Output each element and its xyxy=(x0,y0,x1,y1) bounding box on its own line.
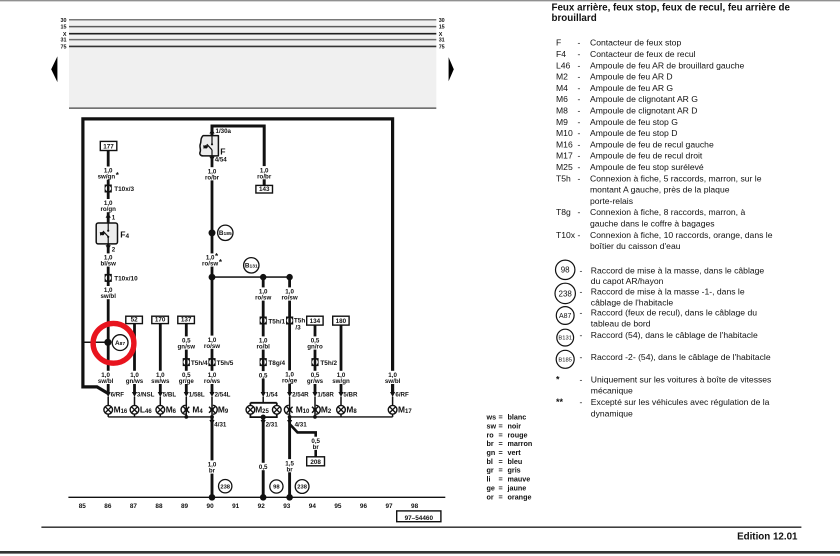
svg-text:br: br xyxy=(209,468,216,475)
label gn/sw xyxy=(176,336,196,349)
pin arrows into lamps xyxy=(106,392,111,397)
svg-text:orange: orange xyxy=(508,492,532,501)
svg-text:T5h/4: T5h/4 xyxy=(191,360,208,367)
svg-text:vert: vert xyxy=(508,448,522,457)
svg-text:M17: M17 xyxy=(556,151,573,161)
svg-text:T5h/2: T5h/2 xyxy=(320,360,337,367)
svg-text:sw/bl: sw/bl xyxy=(100,293,116,300)
svg-text:porte-relais: porte-relais xyxy=(590,196,633,206)
svg-text:M25: M25 xyxy=(556,162,573,172)
wire: A87 junction link to frame xyxy=(83,341,108,343)
wire: lamp rail right (M10..M17) xyxy=(290,416,393,418)
svg-text:Raccord (54), dans le câblage: Raccord (54), dans le câblage de l'habit… xyxy=(591,330,758,340)
svg-text:/3: /3 xyxy=(295,325,301,332)
svg-text:ws: ws xyxy=(486,413,497,422)
svg-text:Raccord de mise à la masse, da: Raccord de mise à la masse, dans le câbl… xyxy=(591,265,765,275)
svg-text:86: 86 xyxy=(104,503,112,510)
wire: M16 lamp stub xyxy=(107,397,109,406)
wire: box52 to L46 xyxy=(133,324,136,393)
label sw/bl right xyxy=(383,371,403,384)
svg-text:137: 137 xyxy=(181,317,192,324)
svg-text:bl/sw: bl/sw xyxy=(100,261,116,268)
svg-text:gn/sw: gn/sw xyxy=(178,344,196,351)
wire: M17 lamp stub xyxy=(392,397,394,406)
svg-text:Connexion à fiche, 5 raccords,: Connexion à fiche, 5 raccords, marron, s… xyxy=(590,173,762,183)
svg-text:-: - xyxy=(578,49,581,59)
pin arrows below rails (4/31,2/31,4/31) xyxy=(209,420,214,425)
svg-text:-: - xyxy=(580,308,583,318)
svg-text:1: 1 xyxy=(112,215,116,222)
lamp L46 xyxy=(130,405,139,414)
wire: plus bus frame (top / left to M16 / right to M17) xyxy=(83,119,393,394)
svg-text:B185: B185 xyxy=(219,230,232,237)
connector T5h/2 xyxy=(311,358,318,366)
svg-text:br: br xyxy=(313,444,320,451)
svg-text:4/31: 4/31 xyxy=(295,422,308,429)
svg-text:Ampoule de clignotant AR G: Ampoule de clignotant AR G xyxy=(590,94,698,104)
nav triangle right xyxy=(449,57,454,81)
svg-text:30: 30 xyxy=(439,18,445,24)
wire: M10 ground run xyxy=(288,417,291,497)
svg-text:-: - xyxy=(578,38,581,48)
svg-text:Ampoule de feu de recul gauche: Ampoule de feu de recul gauche xyxy=(590,139,714,149)
svg-text:=: = xyxy=(499,421,503,430)
svg-text:4/54: 4/54 xyxy=(215,157,228,164)
svg-text:=: = xyxy=(499,413,503,422)
bus line X xyxy=(69,33,436,35)
svg-text:T10x/3: T10x/3 xyxy=(114,186,134,193)
svg-text:sw: sw xyxy=(487,421,497,430)
label ro/sw mid xyxy=(202,336,222,349)
bus line 31 xyxy=(69,39,436,41)
wire: lamp rail left (M16..M9) xyxy=(108,416,212,418)
label sw/bl upper xyxy=(98,286,118,299)
page top edge line xyxy=(0,0,840,2)
svg-text:T5h/5: T5h/5 xyxy=(217,360,234,367)
svg-text:br: br xyxy=(287,466,294,473)
svg-text:**: ** xyxy=(556,397,564,407)
svg-text:ro/ws: ro/ws xyxy=(204,378,221,385)
svg-text:97: 97 xyxy=(385,503,393,510)
page bottom rule xyxy=(0,551,840,554)
svg-text:=: = xyxy=(499,483,503,492)
svg-text:M8: M8 xyxy=(556,106,568,116)
svg-text:Ampoule de feu AR G: Ampoule de feu AR G xyxy=(590,83,673,93)
svg-text:96: 96 xyxy=(360,503,368,510)
svg-text:bl: bl xyxy=(487,457,493,466)
svg-text:-: - xyxy=(580,287,583,297)
svg-text:1/58L: 1/58L xyxy=(189,391,205,398)
svg-text:dynamique: dynamique xyxy=(591,408,633,418)
label ro/sw branch1 xyxy=(253,287,273,300)
svg-text:-: - xyxy=(578,72,581,82)
svg-text:sw/bl: sw/bl xyxy=(98,378,114,385)
svg-text:-: - xyxy=(580,265,583,275)
bus line 75 xyxy=(69,45,436,47)
svg-text:15: 15 xyxy=(61,25,67,31)
svg-text:93: 93 xyxy=(283,503,291,510)
svg-text:ro/sw: ro/sw xyxy=(282,295,298,302)
svg-text:Uniquement sur les voitures à: Uniquement sur les voitures à boîte de v… xyxy=(591,374,772,384)
svg-text:=: = xyxy=(499,492,503,501)
svg-text:ro/bl: ro/bl xyxy=(256,344,270,351)
svg-text:-: - xyxy=(580,397,583,407)
svg-text:sw/gn: sw/gn xyxy=(332,378,350,385)
svg-text:ro/gn: ro/gn xyxy=(100,206,116,213)
svg-text:blanc: blanc xyxy=(508,413,527,422)
box 177 xyxy=(100,141,117,150)
svg-text:4: 4 xyxy=(126,233,130,240)
svg-text:75: 75 xyxy=(439,45,445,51)
svg-text:6/RF: 6/RF xyxy=(111,391,125,398)
svg-text:134: 134 xyxy=(310,318,321,325)
svg-text:gauche dans le coffre à bagage: gauche dans le coffre à bagages xyxy=(590,219,715,229)
svg-text:ge: ge xyxy=(487,483,495,492)
svg-text:A87: A87 xyxy=(115,340,125,347)
ground 238 right xyxy=(295,480,309,494)
label sw/gn right xyxy=(331,371,351,384)
svg-text:T5h: T5h xyxy=(294,318,305,325)
svg-text:Raccord de mise à la masse -1-: Raccord de mise à la masse -1-, dans le xyxy=(591,287,745,297)
svg-text:Connexion à fiche, 8 raccords,: Connexion à fiche, 8 raccords, marron, à xyxy=(590,207,745,217)
svg-text:Ampoule de feu stop G: Ampoule de feu stop G xyxy=(590,117,678,127)
svg-text:31: 31 xyxy=(61,38,67,44)
box 208 xyxy=(307,457,325,466)
svg-text:94: 94 xyxy=(309,503,317,510)
svg-text:30: 30 xyxy=(61,18,67,24)
svg-text:2/54L: 2/54L xyxy=(215,391,231,398)
raccord B185 xyxy=(218,225,233,240)
lamp bottom stubs xyxy=(107,414,109,417)
wire: branch from M10 to 208 xyxy=(290,424,316,457)
legend ground items xyxy=(556,260,575,279)
wire: M9 ground run xyxy=(211,417,214,497)
svg-text:A87: A87 xyxy=(559,313,572,320)
svg-text:143: 143 xyxy=(259,186,270,193)
svg-text:97–54460: 97–54460 xyxy=(405,515,434,522)
label ro/br right xyxy=(254,166,274,179)
svg-text:208: 208 xyxy=(310,459,321,466)
pin arrow 1/30a xyxy=(209,129,214,134)
svg-text:15: 15 xyxy=(439,25,445,31)
pin arrow 4/54 xyxy=(209,157,214,162)
svg-text:=: = xyxy=(499,475,503,484)
wire: M9 lamp pass-through (thin) xyxy=(211,397,213,417)
ground 238 left xyxy=(219,480,232,493)
label ro/bl xyxy=(253,336,273,349)
svg-text:87: 87 xyxy=(130,503,138,510)
lamp M9 (half) xyxy=(209,405,217,414)
ground line dots xyxy=(209,494,216,501)
svg-text:F: F xyxy=(556,38,561,48)
junction A87 xyxy=(104,339,111,346)
svg-text:T5h: T5h xyxy=(556,173,571,183)
svg-text:Contacteur de feux de recul: Contacteur de feux de recul xyxy=(590,49,696,59)
svg-text:180: 180 xyxy=(336,318,347,325)
label 0,5 ground xyxy=(257,463,270,470)
svg-text:238: 238 xyxy=(220,484,230,490)
box 170 xyxy=(152,316,169,324)
svg-text:ro/sw: ro/sw xyxy=(204,343,220,350)
svg-text:89: 89 xyxy=(181,503,189,510)
svg-text:98: 98 xyxy=(561,266,570,275)
svg-text:-: - xyxy=(578,117,581,127)
svg-text:-: - xyxy=(580,330,583,340)
lamp M4 (half) xyxy=(181,405,189,414)
svg-text:B131: B131 xyxy=(558,336,572,342)
wire: main F to M9 (x=212) xyxy=(211,156,214,393)
svg-text:6/RF: 6/RF xyxy=(395,391,409,398)
svg-text:98: 98 xyxy=(411,503,419,510)
svg-text:90: 90 xyxy=(207,503,215,510)
svg-text:ro/br: ro/br xyxy=(205,174,220,181)
label 0,5 br 208 xyxy=(309,437,322,450)
contactor F (feux stop) xyxy=(200,136,219,156)
wire: box170 to M6 xyxy=(159,324,162,393)
svg-text:75: 75 xyxy=(61,45,67,51)
terminal band background xyxy=(69,19,436,108)
svg-text:1/54: 1/54 xyxy=(266,391,279,398)
wire: M25 loop xyxy=(250,403,276,417)
svg-text:Ampoule de clignotant AR D: Ampoule de clignotant AR D xyxy=(590,106,698,116)
svg-text:F: F xyxy=(220,146,225,156)
svg-text:170: 170 xyxy=(155,317,166,324)
lamp M2 (half) xyxy=(312,405,320,414)
label ro/sw branch2 xyxy=(280,287,300,300)
svg-text:=: = xyxy=(499,439,503,448)
svg-text:marron: marron xyxy=(508,439,533,448)
label sw/bl lower xyxy=(96,371,116,384)
svg-text:Excepté sur les véhicules avec: Excepté sur les véhicules avec régulatio… xyxy=(591,397,770,407)
label sw/ws xyxy=(150,371,170,384)
svg-text:85: 85 xyxy=(79,503,87,510)
lamp M6 xyxy=(156,405,165,414)
nav triangle left xyxy=(51,56,57,82)
footer rule xyxy=(41,526,801,528)
wire: F4 to M16 junction run xyxy=(107,244,110,393)
raccord B131 xyxy=(244,258,259,273)
svg-text:M6: M6 xyxy=(556,94,568,104)
svg-text:brouillard: brouillard xyxy=(552,13,597,24)
svg-text:Ampoule de feu AR de brouillar: Ampoule de feu AR de brouillard gauche xyxy=(590,60,745,70)
svg-text:=: = xyxy=(499,448,503,457)
svg-text:ro/ge: ro/ge xyxy=(282,378,298,385)
lamp M25 twin xyxy=(246,405,255,414)
label gn/ro xyxy=(305,336,325,349)
svg-text:tableau de bord: tableau de bord xyxy=(591,318,651,328)
svg-text:-: - xyxy=(578,60,581,70)
svg-text:sw/ws: sw/ws xyxy=(151,378,170,385)
lamp M16 xyxy=(104,405,113,414)
connector T10x/3 xyxy=(105,185,112,193)
svg-text:br: br xyxy=(487,439,494,448)
contactor F4 (feux de recul) xyxy=(96,223,117,244)
svg-text:-: - xyxy=(578,128,581,138)
svg-text:gr/ws: gr/ws xyxy=(307,378,324,385)
svg-text:177: 177 xyxy=(103,144,114,151)
box 180 xyxy=(333,316,349,325)
svg-text:-: - xyxy=(578,94,581,104)
box 52 xyxy=(126,316,143,324)
rail junction dots xyxy=(184,415,188,419)
lamp M8 xyxy=(337,405,346,414)
label br ground M9 xyxy=(206,460,219,473)
svg-text:or: or xyxy=(487,492,494,501)
svg-text:238: 238 xyxy=(559,289,573,298)
svg-text:-: - xyxy=(578,151,581,161)
box 134 xyxy=(307,316,323,325)
svg-text:4/31: 4/31 xyxy=(214,422,227,429)
svg-text:5/BL: 5/BL xyxy=(163,391,177,398)
label ro/ws xyxy=(202,371,222,384)
svg-text:sw/bl: sw/bl xyxy=(385,378,401,385)
label 1,5 br ground xyxy=(283,459,296,472)
svg-text:2/31: 2/31 xyxy=(266,422,279,429)
svg-text:M4: M4 xyxy=(556,83,568,93)
svg-text:ro/br: ro/br xyxy=(257,173,272,180)
svg-text:bleu: bleu xyxy=(508,457,523,466)
svg-text:91: 91 xyxy=(232,503,240,510)
connector T8g/4 xyxy=(260,358,267,366)
pin arrow F4 pin2 xyxy=(106,245,111,250)
svg-text:95: 95 xyxy=(334,503,342,510)
connector T5h/1 xyxy=(260,317,267,325)
box 143 xyxy=(256,185,273,193)
lamp M17 xyxy=(388,405,397,414)
svg-text:gn/ws: gn/ws xyxy=(126,378,144,385)
wire: branch to M10 (x=289.6) xyxy=(288,277,291,392)
svg-text:0,5: 0,5 xyxy=(259,464,268,471)
svg-text:=: = xyxy=(499,466,503,475)
label ro/sw starred xyxy=(202,253,222,266)
wire: M10 lamp pass-through (thin) xyxy=(289,397,291,417)
svg-text:Ampoule de feu stop D: Ampoule de feu stop D xyxy=(590,128,677,138)
svg-text:Raccord -2- (54), dans le câbl: Raccord -2- (54), dans le câblage de l'h… xyxy=(591,352,771,362)
svg-text:jaune: jaune xyxy=(507,483,527,492)
svg-text:ro/sw: ro/sw xyxy=(255,295,271,302)
wire: branch rail below B131 xyxy=(212,276,290,278)
svg-text:Edition 12.01: Edition 12.01 xyxy=(737,532,798,543)
label bl/sw xyxy=(98,253,118,266)
svg-text:Ampoule de feu de recul droit: Ampoule de feu de recul droit xyxy=(590,151,703,161)
svg-text:-: - xyxy=(578,83,581,93)
svg-text:gn: gn xyxy=(487,448,496,457)
svg-text:1/30a: 1/30a xyxy=(216,128,232,135)
svg-text:-: - xyxy=(578,162,581,172)
lamp M10 (half) xyxy=(284,405,292,414)
svg-text:-: - xyxy=(578,106,581,116)
svg-text:3/NSL: 3/NSL xyxy=(137,391,155,398)
svg-text:52: 52 xyxy=(131,317,139,324)
svg-text:T10x/10: T10x/10 xyxy=(114,276,138,283)
svg-text:0,5: 0,5 xyxy=(259,372,268,379)
diagram number box xyxy=(397,511,441,522)
svg-text:M16: M16 xyxy=(556,139,573,149)
svg-text:98: 98 xyxy=(273,485,280,491)
pin arrow F4 pin1 xyxy=(106,213,111,218)
bus line 30 xyxy=(69,19,436,21)
box 137 xyxy=(178,316,195,324)
svg-text:-: - xyxy=(578,207,581,217)
junction at branch rail xyxy=(209,274,216,281)
svg-text:-: - xyxy=(578,230,581,240)
red annotation circle xyxy=(93,323,134,363)
svg-text:M2: M2 xyxy=(556,72,568,82)
svg-text:du capot AR/hayon: du capot AR/hayon xyxy=(591,276,664,286)
svg-text:M9: M9 xyxy=(556,117,568,127)
svg-text:B185: B185 xyxy=(558,357,572,363)
svg-text:li: li xyxy=(487,475,491,484)
label sw/gn xyxy=(98,167,118,180)
label ro/ge xyxy=(280,370,300,383)
svg-text:2: 2 xyxy=(112,246,116,253)
svg-text:gris: gris xyxy=(508,466,521,475)
svg-text:L46: L46 xyxy=(556,60,571,70)
svg-text:mécanique: mécanique xyxy=(591,386,633,396)
label gr/ws xyxy=(305,371,325,384)
svg-text:montant A gauche, près de la p: montant A gauche, près de la plaque xyxy=(590,185,730,195)
wire: branch to M25 (x=263.2) xyxy=(262,277,265,392)
svg-text:-: - xyxy=(578,139,581,149)
svg-text:boîtier du caisson d'eau: boîtier du caisson d'eau xyxy=(590,241,681,251)
svg-text:T8g/4: T8g/4 xyxy=(268,360,285,367)
connector T5h/3 xyxy=(286,317,293,325)
wire: box180 to M8 xyxy=(340,325,343,392)
svg-text:gn/ro: gn/ro xyxy=(307,344,323,351)
svg-text:rouge: rouge xyxy=(508,430,528,439)
svg-text:B131: B131 xyxy=(245,263,258,270)
svg-text:Contacteur de feux stop: Contacteur de feux stop xyxy=(590,38,681,48)
label 0,5 M25 xyxy=(257,371,270,378)
svg-text:Feux arrière, feux stop, feux: Feux arrière, feux stop, feux de recul, … xyxy=(552,2,791,13)
svg-text:-: - xyxy=(580,374,583,384)
wire: box134 to M2 xyxy=(314,325,317,392)
wire: 1/30a bus from F to 143 xyxy=(212,126,264,185)
svg-text:Ampoule de feu stop surélevé: Ampoule de feu stop surélevé xyxy=(590,162,704,172)
svg-text:=: = xyxy=(499,457,503,466)
svg-text:*: * xyxy=(556,375,560,385)
svg-text:gr/ge: gr/ge xyxy=(179,378,195,385)
wire: 177 to F4 (x=108.2) xyxy=(107,151,110,224)
wire: M25 ground (x=263.2) xyxy=(262,417,265,497)
svg-text:31: 31 xyxy=(439,38,445,44)
connector T5h/4 xyxy=(183,358,190,366)
svg-text:noir: noir xyxy=(508,421,522,430)
raccord A87 xyxy=(112,335,128,351)
label gr/ge xyxy=(176,371,196,384)
svg-text:mauve: mauve xyxy=(508,475,531,484)
svg-text:gr: gr xyxy=(487,466,494,475)
svg-text:Ampoule de feu AR D: Ampoule de feu AR D xyxy=(590,72,673,82)
connector T5h/5 xyxy=(208,358,215,366)
svg-text:92: 92 xyxy=(258,503,266,510)
svg-text:=: = xyxy=(499,430,503,439)
wire: box137 to M4 to rail xyxy=(185,324,188,393)
svg-text:Connexion à fiche, 10 raccords: Connexion à fiche, 10 raccords, orange, … xyxy=(590,230,773,240)
connector T10x/10 xyxy=(105,274,112,282)
svg-text:T10x: T10x xyxy=(556,230,576,240)
svg-text:1/58R: 1/58R xyxy=(317,391,334,398)
svg-text:F4: F4 xyxy=(556,49,566,59)
label ro/br left xyxy=(202,167,222,180)
bottom current-track rule xyxy=(68,496,445,498)
svg-text:T5h/1: T5h/1 xyxy=(268,318,285,325)
svg-text:Raccord (feux de recul), dans: Raccord (feux de recul), dans le câblage… xyxy=(591,308,757,318)
label gn/ws xyxy=(125,371,145,384)
svg-text:T8g: T8g xyxy=(556,207,571,217)
svg-text:ro: ro xyxy=(487,430,495,439)
svg-text:-: - xyxy=(580,352,583,362)
